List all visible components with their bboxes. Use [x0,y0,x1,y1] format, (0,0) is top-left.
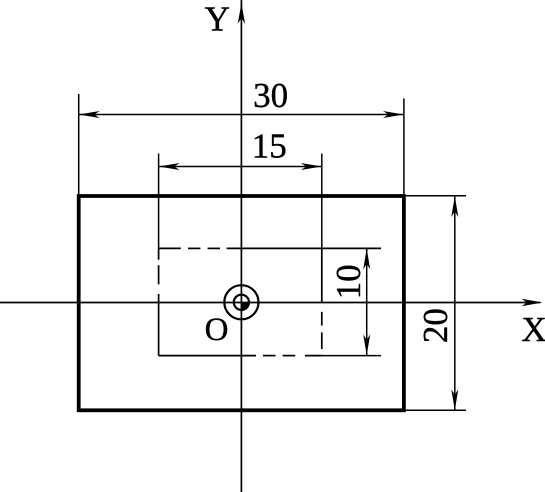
outer rectangle (part outline) [79,196,404,410]
origin target symbol: inner circle [234,295,249,310]
dimension 20: dimension line with arrows [451,196,458,410]
dimension 15: dimension line with arrows [159,163,322,170]
dimension 30: extension line left [78,94,80,194]
X axis [0,299,543,306]
svg-text:O: O [205,312,229,348]
dimension 10: extension line bottom [319,355,381,357]
Y axis [238,0,245,492]
dimension 15: extension line right [321,154,323,249]
svg-text:X: X [522,310,545,349]
svg-text:30: 30 [253,76,288,115]
svg-text:10: 10 [329,264,368,299]
svg-text:20: 20 [416,308,455,343]
dimension 15: extension line left [158,154,160,249]
inner rectangle left edge (dashes then solid) [158,247,160,355]
inner rectangle bottom edge (solid + dashes) [159,355,323,357]
dimension 10: dimension line with arrows [363,248,370,355]
svg-text:15: 15 [252,127,287,166]
dimension 20: extension line top [406,195,466,197]
dimension 30: extension line right [403,99,405,195]
origin target symbol: outer circle [224,285,258,319]
inner rectangle top edge (solid + dashes), extends right as extension for 10 [159,247,381,249]
dimension 30: dimension line with arrows [79,111,404,118]
svg-text:Y: Y [205,0,230,39]
dimension 20: extension line bottom [406,409,466,411]
inner rectangle right edge (solid then dashes) [321,248,323,349]
origin target symbol: filled lower-right quadrant [241,302,249,310]
